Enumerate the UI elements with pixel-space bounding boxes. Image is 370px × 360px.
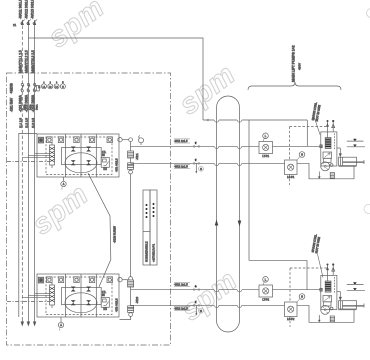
svg-text:1L2 2.5: 1L2 2.5 — [25, 118, 29, 128]
pipe DN1a — [347, 139, 364, 141]
remote feed wire — [203, 119, 307, 123]
svg-text:E: E — [38, 85, 40, 89]
starter 1 breaker Q1 — [50, 143, 55, 168]
wire W22 — [131, 305, 309, 307]
feed riser to station 2 — [306, 260, 308, 289]
starter 2 breaker Q2 — [50, 283, 55, 308]
solenoid valve enclosure 1 — [321, 132, 337, 166]
pump P2 — [321, 305, 333, 314]
svg-text:-K1M 5.5kW: -K1M 5.5kW — [113, 226, 117, 243]
door interlock linkage 2 — [7, 301, 49, 303]
level transmitter LT1 — [259, 142, 273, 159]
pilot line dashed 2 — [290, 268, 327, 327]
svg-text:11: 11 — [13, 23, 16, 27]
fuse switch F3 — [33, 83, 39, 92]
conduit flow arrow up — [215, 220, 219, 226]
svg-text:spm: spm — [27, 178, 95, 241]
starter 1 PE tag A — [61, 177, 66, 190]
contactor callout line — [88, 173, 111, 287]
X2 connector block 3 — [128, 280, 134, 287]
svg-text:-W012 3G2.5: -W012 3G2.5 — [25, 0, 29, 19]
Y2 spring return — [334, 277, 336, 294]
W22 termination marks — [192, 301, 200, 307]
wire to contactor — [22, 153, 49, 157]
svg-text:N: N — [62, 86, 64, 88]
svg-text:3: 3 — [56, 82, 57, 84]
drain line 1 — [318, 172, 321, 180]
terminal table column 1 — [143, 190, 150, 265]
remote group brace — [248, 82, 341, 90]
W12 screen drain — [195, 163, 203, 173]
svg-text:-W013 3G2.5: -W013 3G2.5 — [31, 0, 35, 19]
svg-text:D02A: D02A — [35, 104, 38, 110]
svg-text:spm: spm — [174, 58, 242, 121]
svg-text:D02A: D02A — [23, 104, 26, 110]
W21 cable label — [174, 282, 190, 286]
svg-text:LS-P1: LS-P1 — [287, 175, 295, 179]
drain line 2 — [318, 315, 321, 323]
level switch LS2 — [285, 302, 298, 321]
svg-text:+MDB: +MDB — [10, 83, 14, 94]
terminal strip X2 riser — [120, 138, 133, 320]
cable gland 2 — [330, 316, 334, 322]
svg-text:+MTHBLR-P1: +MTHBLR-P1 — [152, 244, 156, 262]
door interlock linkage — [7, 161, 49, 163]
wire entry tick 1 — [320, 145, 323, 148]
X2 connector block 4 — [128, 306, 134, 313]
feeder bus wire to remote — [28, 38, 203, 120]
W12 cable label — [174, 164, 190, 168]
starter 1 overload/motor ellipse — [65, 153, 97, 173]
wire W11 (level transmitter supply) — [131, 146, 322, 148]
Y1 spring return — [334, 134, 336, 151]
svg-text:S: S — [301, 153, 303, 157]
feed drop to station 2 — [249, 120, 307, 260]
svg-text:S: S — [200, 167, 202, 171]
cylinder CYL2 — [339, 301, 365, 310]
starter 1 top terminals — [38, 137, 112, 143]
feed riser to station 1 — [306, 120, 308, 146]
svg-text:MMB/2T3L3 2.5: MMB/2T3L3 2.5 — [31, 50, 35, 73]
svg-text:L: L — [265, 278, 267, 282]
svg-text:spm: spm — [43, 0, 111, 54]
Y1 pilot stem — [332, 120, 335, 132]
return wire 2 — [309, 305, 354, 322]
svg-text:LS-P2: LS-P2 — [287, 317, 295, 321]
starter 2 contactor K2 — [62, 288, 102, 305]
starter 1 aux relay — [101, 151, 109, 170]
svg-text:-W12 2x1.5: -W12 2x1.5 — [174, 165, 188, 169]
spare note 2 — [311, 234, 323, 278]
svg-text:460V: 460V — [298, 63, 302, 70]
cable trunk conduit — [217, 96, 240, 332]
Y1 vent stem — [326, 120, 329, 138]
Y2 vent stem — [326, 264, 329, 282]
svg-text:1L1 2.5: 1L1 2.5 — [19, 118, 23, 128]
pipe DN2a — [347, 283, 364, 285]
starter 1 contactor K1 — [62, 148, 102, 165]
supply line L2 — [26, 20, 30, 318]
svg-text:1L3 2.5: 1L3 2.5 — [31, 118, 35, 128]
valve-cylinder link 2 — [337, 292, 342, 301]
starter 2 top terminals — [38, 277, 112, 283]
svg-text:1: 1 — [44, 82, 45, 84]
svg-text:MAIN LIFT PUMPS 1+2: MAIN LIFT PUMPS 1+2 — [292, 45, 296, 82]
svg-text:2: 2 — [50, 82, 51, 84]
W21 termination marks — [192, 285, 200, 291]
supply line L3 — [33, 20, 37, 318]
valve body V2 — [323, 296, 332, 307]
pilot line dashed 1 — [290, 127, 327, 186]
panel enclosure +MDB (dash-dot border) — [7, 73, 171, 345]
solenoid valve enclosure 2 — [321, 275, 337, 309]
X2 connector block 2 — [128, 163, 134, 170]
svg-text:LT-P1: LT-P1 — [262, 154, 269, 158]
svg-text:spm: spm — [176, 264, 244, 327]
fuse switch F2 — [27, 83, 30, 92]
svg-text:S: S — [301, 295, 303, 299]
supply line N — [18, 134, 37, 318]
svg-text:-2B1 5MV: -2B1 5MV — [9, 97, 13, 112]
Y2 pilot stem — [332, 263, 335, 275]
spare note 1 — [311, 102, 322, 135]
LT1 tag bubble — [263, 133, 269, 142]
starter 1 contact terminals — [71, 147, 91, 166]
svg-text:55: 55 — [102, 154, 105, 157]
starter 2 bay dividers — [66, 274, 97, 317]
wire W12 (level switch) — [131, 163, 309, 165]
W22 screen drain — [195, 305, 203, 315]
svg-text:L: L — [265, 134, 267, 138]
LS2 tag bubble — [297, 294, 305, 302]
svg-text:LT-P2: LT-P2 — [262, 298, 269, 302]
W22 cable label — [174, 306, 190, 310]
PE pigtail circle — [139, 136, 144, 145]
solenoid coil Y1 — [325, 138, 331, 149]
svg-text:-W22 2x1.5: -W22 2x1.5 — [174, 307, 188, 311]
pipe DN1b — [347, 145, 365, 147]
svg-text:MMB/2T2L2 2.5: MMB/2T2L2 2.5 — [25, 50, 29, 73]
bottom supply arrows — [21, 317, 37, 327]
valve body V1 — [323, 152, 332, 163]
svg-text:-W11 2x1.5: -W11 2x1.5 — [174, 139, 188, 143]
starter 2 aux relay — [101, 291, 109, 310]
fuse switch F1 — [21, 83, 24, 92]
brace label — [292, 45, 302, 82]
svg-text:-W2 4G2.5: -W2 4G2.5 — [115, 298, 119, 312]
wire entry tick 2 — [320, 288, 323, 291]
pipe DN2b — [347, 288, 365, 290]
wire W21 — [131, 290, 322, 292]
svg-text:55: 55 — [102, 294, 105, 297]
solenoid coil Y2 — [325, 281, 331, 292]
svg-text:-W011 3G1.5: -W011 3G1.5 — [18, 0, 22, 19]
cylinder CYL1 — [339, 157, 365, 166]
starter 2 outer box — [37, 274, 119, 317]
wire to contactor 2 — [22, 293, 49, 297]
svg-text:S: S — [200, 309, 202, 313]
conduit flow arrow down — [238, 221, 242, 227]
pump P1 — [321, 162, 333, 171]
svg-text:-X2:3: -X2:3 — [135, 296, 139, 303]
starter 2 PE tag A — [58, 317, 63, 331]
starter 2 right terminal circle — [118, 278, 129, 282]
valve-cylinder link 1 — [337, 148, 342, 157]
svg-text:SUBMERSIBLE: SUBMERSIBLE — [145, 241, 149, 262]
starter 1 right terminal circle — [118, 138, 129, 142]
supply line L1 (incoming feeder, dashed) — [20, 20, 24, 318]
starter 1 bay dividers — [66, 134, 97, 177]
W11 cable label — [174, 139, 190, 143]
starter 1 outer box — [37, 134, 119, 177]
level switch LS1 — [285, 160, 298, 179]
starter 2 inner dashed box — [46, 277, 112, 315]
W12 termination marks — [192, 159, 200, 165]
svg-text:A: A — [60, 324, 62, 327]
svg-text:-Q11 D02A: -Q11 D02A — [19, 94, 23, 112]
svg-text:MMB/2T1L1 2.5: MMB/2T1L1 2.5 — [19, 50, 23, 73]
svg-text:-W1 4G2.5: -W1 4G2.5 — [115, 158, 119, 172]
cable gland 1 — [330, 173, 334, 179]
svg-text:-X2:1: -X2:1 — [135, 153, 139, 160]
secondary tags — [23, 104, 38, 110]
svg-text:D02A: D02A — [29, 104, 32, 110]
starter 2 contact terminals — [71, 287, 91, 306]
phase marker circles — [38, 82, 65, 89]
X2 connector block 1 — [128, 151, 134, 158]
LS1 tag bubble — [297, 152, 305, 160]
terminal table column 2 — [150, 190, 157, 265]
return wire 1 — [309, 163, 354, 179]
W11 termination marks — [192, 142, 200, 148]
LT2 tag bubble — [263, 277, 269, 286]
starter 1 inner dashed box — [46, 137, 112, 175]
svg-text:-W21 2x1.5: -W21 2x1.5 — [174, 283, 188, 287]
level transmitter LT2 — [259, 285, 273, 302]
starter 2 overload/motor ellipse — [65, 293, 97, 313]
